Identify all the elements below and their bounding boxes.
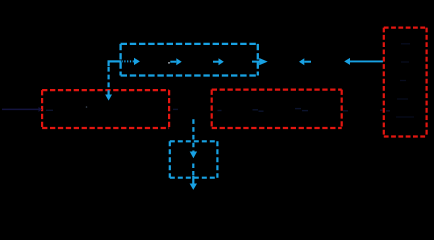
wire: L-connector dotted segment <box>122 60 135 62</box>
faint navy text artifacts (right tall red box) <box>396 44 414 117</box>
faint navy arrow artifacts (middle red box) <box>173 109 390 112</box>
arrowhead into blue box <box>134 58 140 65</box>
arrow a2 (inside top box) <box>170 61 176 63</box>
arrowhead down into left red box <box>105 95 112 101</box>
wire: vertical arrow exiting bottom blue box <box>192 164 194 176</box>
red dashed box (left) <box>42 90 169 128</box>
arrow a3 (inside top box) <box>213 61 219 63</box>
arrow a6 (long, from right red box pointing left) <box>350 60 383 62</box>
navy wire entering left red box from image edge <box>2 108 39 110</box>
faint navy text artifacts (left red box) <box>86 106 88 108</box>
wire: vertical arrow down into bottom blue box <box>192 119 194 151</box>
blue dashed box (top pipeline) <box>121 44 258 76</box>
white dot artifact <box>168 62 170 64</box>
red dashed box (right tall) <box>384 28 427 137</box>
wire: L-connector vertical (red box up) <box>107 61 109 66</box>
blue dashed box (bottom) <box>170 141 218 177</box>
wire: L-connector horizontal solid <box>108 60 122 62</box>
red dashed box (middle) <box>212 90 342 128</box>
arrow a5 (pointing left, between boxes) <box>304 61 311 63</box>
arrow a4 (crossing right edge of top box) <box>252 61 261 63</box>
